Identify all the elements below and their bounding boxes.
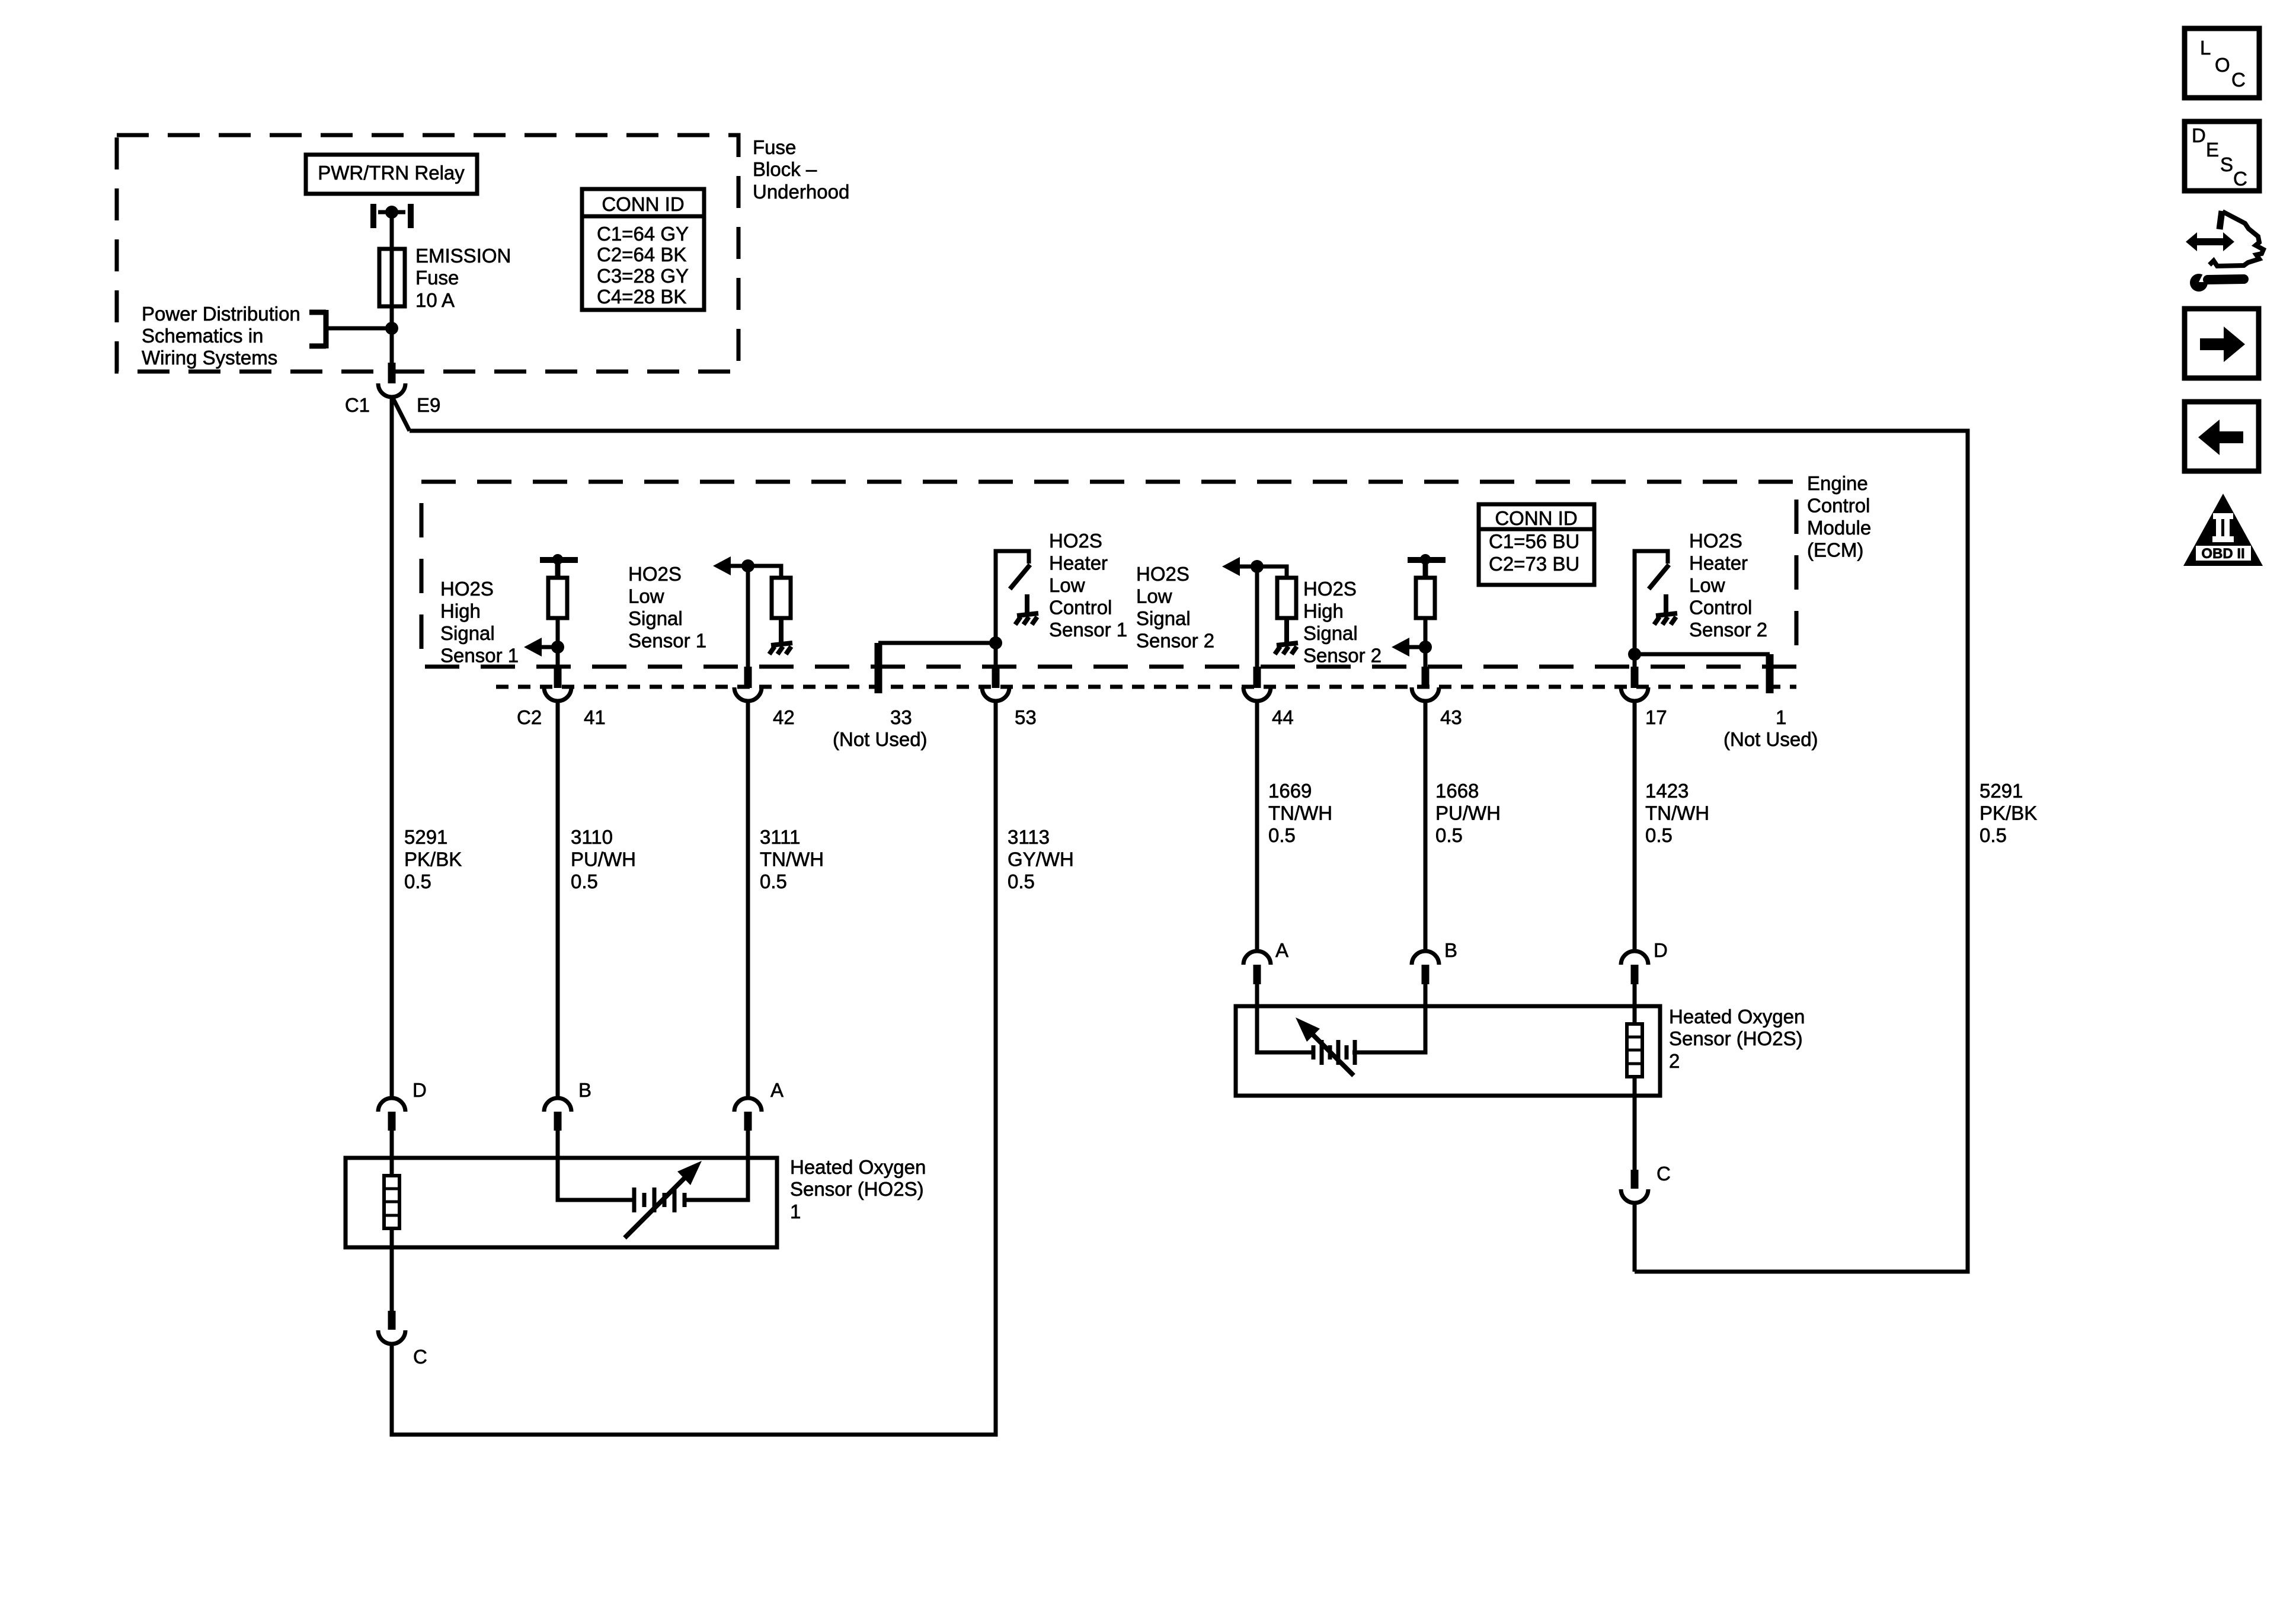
svg-text:1: 1	[1776, 706, 1786, 728]
svg-text:C2: C2	[517, 706, 542, 728]
svg-text:10 A: 10 A	[415, 289, 455, 311]
svg-text:PU/WH: PU/WH	[571, 849, 636, 870]
svg-text:Fuse: Fuse	[753, 136, 796, 158]
svg-text:D: D	[2192, 124, 2206, 146]
svg-text:17: 17	[1645, 706, 1667, 728]
svg-text:C: C	[2233, 168, 2247, 190]
svg-text:TN/WH: TN/WH	[1645, 802, 1709, 824]
svg-text:Signal: Signal	[1303, 622, 1358, 644]
svg-text:HO2S: HO2S	[628, 563, 682, 585]
svg-text:Fuse: Fuse	[415, 267, 459, 289]
svg-text:TN/WH: TN/WH	[760, 849, 824, 870]
svg-text:C2=73 BU: C2=73 BU	[1489, 553, 1579, 575]
svg-text:HO2S: HO2S	[1049, 530, 1102, 552]
svg-text:Sensor 2: Sensor 2	[1303, 645, 1382, 667]
svg-text:High: High	[440, 600, 481, 622]
svg-text:Low: Low	[1049, 574, 1085, 596]
svg-text:Control: Control	[1049, 597, 1112, 619]
svg-text:Sensor 2: Sensor 2	[1689, 619, 1767, 641]
svg-text:Heater: Heater	[1689, 552, 1748, 574]
svg-text:Low: Low	[1689, 574, 1725, 596]
svg-text:PK/BK: PK/BK	[1980, 802, 2037, 824]
svg-text:Power Distribution: Power Distribution	[142, 303, 300, 325]
svg-text:1669: 1669	[1268, 780, 1312, 802]
svg-text:1423: 1423	[1645, 780, 1689, 802]
svg-text:1: 1	[790, 1201, 801, 1222]
svg-text:Schematics in: Schematics in	[142, 325, 263, 347]
svg-text:C: C	[2231, 69, 2246, 91]
svg-text:Module: Module	[1807, 517, 1871, 539]
svg-text:Heater: Heater	[1049, 552, 1108, 574]
svg-text:5291: 5291	[404, 826, 447, 848]
svg-text:Control: Control	[1807, 495, 1870, 517]
svg-text:PK/BK: PK/BK	[404, 849, 462, 870]
svg-text:EMISSION: EMISSION	[415, 245, 511, 267]
svg-text:C1=56 BU: C1=56 BU	[1489, 530, 1579, 552]
svg-text:(Not Used): (Not Used)	[1723, 728, 1818, 750]
svg-text:Heated Oxygen: Heated Oxygen	[1669, 1006, 1805, 1028]
svg-text:A: A	[770, 1079, 784, 1101]
svg-text:D: D	[412, 1079, 427, 1101]
svg-text:Sensor (HO2S): Sensor (HO2S)	[1669, 1028, 1803, 1049]
svg-text:PU/WH: PU/WH	[1435, 802, 1501, 824]
svg-text:Sensor 2: Sensor 2	[1136, 630, 1214, 652]
svg-text:GY/WH: GY/WH	[1008, 849, 1074, 870]
svg-text:Sensor 1: Sensor 1	[440, 645, 519, 667]
svg-text:0.5: 0.5	[1980, 824, 2007, 846]
svg-text:2: 2	[1669, 1050, 1680, 1072]
svg-text:3110: 3110	[571, 826, 613, 848]
svg-text:Sensor 1: Sensor 1	[1049, 619, 1127, 641]
svg-text:(ECM): (ECM)	[1807, 539, 1863, 561]
svg-text:HO2S: HO2S	[1136, 563, 1189, 585]
svg-text:Signal: Signal	[440, 622, 495, 644]
svg-text:O: O	[2215, 54, 2230, 76]
svg-text:43: 43	[1440, 706, 1462, 728]
svg-text:Wiring Systems: Wiring Systems	[142, 347, 277, 369]
svg-text:E: E	[2206, 139, 2219, 161]
svg-text:53: 53	[1015, 706, 1037, 728]
svg-text:Underhood: Underhood	[753, 181, 849, 203]
svg-text:L: L	[2200, 37, 2211, 59]
svg-text:High: High	[1303, 600, 1344, 622]
svg-text:Engine: Engine	[1807, 472, 1868, 494]
svg-text:Sensor (HO2S): Sensor (HO2S)	[790, 1178, 924, 1200]
svg-text:E9: E9	[417, 394, 440, 416]
svg-text:0.5: 0.5	[1435, 824, 1463, 846]
svg-text:5291: 5291	[1980, 780, 2023, 802]
svg-text:CONN ID: CONN ID	[1495, 507, 1577, 529]
svg-text:C2=64 BK: C2=64 BK	[597, 244, 686, 265]
svg-text:44: 44	[1272, 706, 1294, 728]
svg-text:OBD II: OBD II	[2201, 546, 2244, 562]
svg-text:3113: 3113	[1008, 826, 1050, 848]
svg-text:3111: 3111	[760, 826, 801, 848]
svg-text:B: B	[1444, 939, 1457, 961]
svg-text:Block –: Block –	[753, 158, 817, 180]
svg-text:1668: 1668	[1435, 780, 1479, 802]
svg-text:0.5: 0.5	[1008, 870, 1035, 892]
svg-text:C4=28 BK: C4=28 BK	[597, 286, 686, 308]
svg-text:D: D	[1654, 939, 1668, 961]
svg-text:Signal: Signal	[1136, 607, 1191, 629]
svg-text:Signal: Signal	[628, 607, 683, 629]
svg-text:TN/WH: TN/WH	[1268, 802, 1332, 824]
svg-text:CONN ID: CONN ID	[602, 193, 684, 215]
svg-text:Control: Control	[1689, 597, 1752, 619]
svg-text:HO2S: HO2S	[1689, 530, 1742, 552]
svg-text:0.5: 0.5	[1268, 824, 1296, 846]
svg-text:C: C	[413, 1346, 427, 1368]
svg-text:0.5: 0.5	[1645, 824, 1673, 846]
svg-text:Low: Low	[1136, 585, 1172, 607]
svg-text:B: B	[578, 1079, 591, 1101]
svg-text:A: A	[1275, 939, 1288, 961]
svg-text:(Not Used): (Not Used)	[833, 728, 928, 750]
svg-text:HO2S: HO2S	[1303, 578, 1357, 600]
svg-text:0.5: 0.5	[760, 870, 787, 892]
svg-text:Heated Oxygen: Heated Oxygen	[790, 1156, 926, 1178]
svg-text:S: S	[2220, 153, 2233, 175]
svg-text:C3=28 GY: C3=28 GY	[597, 265, 689, 287]
svg-text:0.5: 0.5	[571, 870, 598, 892]
svg-text:Sensor 1: Sensor 1	[628, 630, 706, 652]
svg-text:0.5: 0.5	[404, 870, 431, 892]
svg-text:C1: C1	[345, 394, 370, 416]
svg-text:C: C	[1657, 1163, 1671, 1185]
svg-text:PWR/TRN Relay: PWR/TRN Relay	[318, 162, 465, 184]
svg-text:Low: Low	[628, 585, 664, 607]
svg-text:41: 41	[584, 706, 606, 728]
svg-text:33: 33	[890, 706, 912, 728]
svg-text:HO2S: HO2S	[440, 578, 494, 600]
svg-text:42: 42	[773, 706, 795, 728]
svg-text:C1=64 GY: C1=64 GY	[597, 223, 689, 245]
